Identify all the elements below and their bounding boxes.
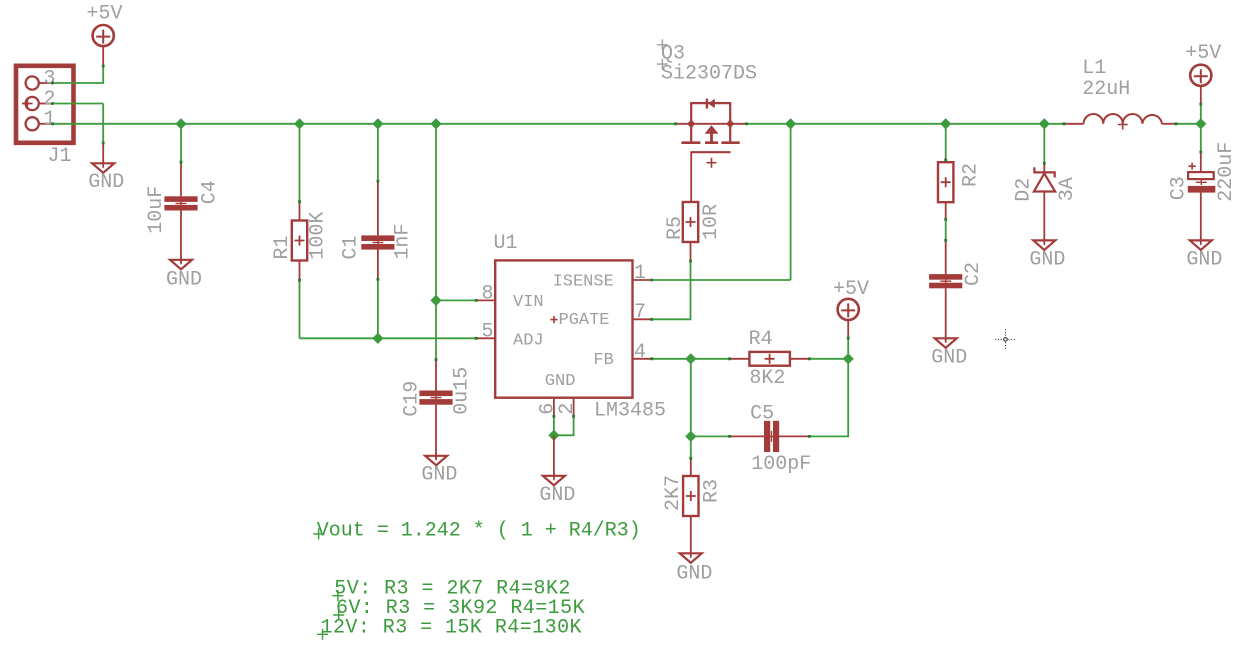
svg-text:D2: D2 bbox=[1012, 178, 1035, 202]
svg-text:8K2: 8K2 bbox=[749, 367, 785, 390]
diode D2 zener bar bbox=[1034, 167, 1054, 177]
ground (C2) bbox=[935, 335, 957, 348]
wire to VIN pin bbox=[436, 299, 476, 301]
GND lead under U1 bbox=[553, 435, 555, 478]
R3 bottom lead bbox=[690, 516, 692, 556]
svg-text:22uH: 22uH bbox=[1082, 78, 1130, 101]
wire C1 to ADJ line bbox=[377, 279, 379, 338]
svg-text:U1: U1 bbox=[494, 232, 518, 255]
U1 ADJ pin stub bbox=[476, 337, 495, 339]
ground (C19) bbox=[425, 453, 447, 466]
Q3 value origin cross bbox=[657, 59, 668, 70]
Q3 contact bars bbox=[681, 141, 739, 144]
svg-text:100K: 100K bbox=[306, 212, 329, 260]
L1 origin cross bbox=[1118, 120, 1128, 130]
wire FB to R4 bbox=[691, 358, 730, 360]
svg-text:0u15: 0u15 bbox=[450, 367, 473, 415]
junction VIN wire bbox=[430, 295, 441, 306]
svg-text:3A: 3A bbox=[1056, 177, 1079, 201]
C5 right lead bbox=[779, 435, 809, 437]
junction rail/VIN bbox=[430, 118, 441, 129]
connector J1 bbox=[16, 66, 74, 143]
junction rail/C4 bbox=[175, 118, 186, 129]
wire pin 6 down bbox=[553, 416, 555, 435]
capacitor C1 bbox=[361, 235, 394, 249]
svg-text:C3: C3 bbox=[1168, 176, 1191, 200]
svg-text:R2: R2 bbox=[959, 163, 982, 187]
wire +5V down to C5 bbox=[809, 338, 848, 436]
transistor Q3 body diode loop bbox=[691, 103, 730, 124]
+5V supply pin bbox=[102, 46, 104, 66]
wire FB node down bbox=[690, 359, 692, 437]
J1 pin 1 stub bbox=[39, 123, 53, 125]
svg-text:+5V: +5V bbox=[1185, 42, 1221, 65]
resistor R4 bbox=[749, 352, 790, 366]
svg-text:LM3485: LM3485 bbox=[594, 399, 666, 422]
svg-text:ADJ: ADJ bbox=[513, 332, 544, 351]
wire +5V to output node bbox=[1200, 104, 1202, 124]
svg-text:5: 5 bbox=[482, 320, 494, 343]
D2 top lead bbox=[1043, 163, 1045, 174]
Q3 drain leg bbox=[729, 124, 731, 142]
U1 origin cross bbox=[550, 316, 557, 323]
Q3 body diode bar bbox=[706, 99, 708, 109]
C3 bottom lead bbox=[1200, 193, 1202, 243]
wire node to C5 bbox=[691, 435, 730, 437]
R1 top lead bbox=[299, 202, 301, 221]
J1 pin 2 circle bbox=[26, 97, 39, 110]
C3 polarity plus bbox=[1189, 163, 1196, 170]
svg-text:R4: R4 bbox=[749, 328, 773, 351]
svg-text:PGATE: PGATE bbox=[559, 311, 610, 330]
inductor L1 bbox=[1064, 123, 1084, 125]
J1 pin 3 stub bbox=[39, 82, 53, 84]
ground (J1) bbox=[92, 160, 114, 173]
wire node down to R3 bbox=[690, 436, 692, 458]
capacitor C3 (polarized) bbox=[1188, 172, 1216, 192]
wire R4 to +5V node bbox=[809, 358, 848, 360]
svg-text:10R: 10R bbox=[700, 204, 723, 240]
svg-text:+5V: +5V bbox=[833, 278, 869, 301]
junction C1/ADJ line bbox=[372, 333, 383, 344]
junction FB/C5/R3 bbox=[685, 431, 696, 442]
wire rail down to C19 (VIN net) bbox=[435, 124, 437, 360]
junction rail/R1 bbox=[294, 118, 305, 129]
+5V supply pin (feedback) bbox=[847, 320, 849, 339]
junction node FB bbox=[685, 353, 696, 364]
wire R2 to C2 bbox=[945, 219, 947, 240]
wire output node to C3 bbox=[1200, 124, 1202, 152]
resistor R5 bbox=[683, 202, 698, 242]
Q3 source leg bbox=[690, 124, 692, 142]
svg-text:C5: C5 bbox=[750, 402, 774, 425]
svg-text:GND: GND bbox=[166, 269, 202, 292]
resistor R3 bbox=[683, 476, 698, 516]
R1 bottom lead bbox=[299, 261, 301, 281]
capacitor C4 bbox=[164, 196, 197, 210]
svg-text:GND: GND bbox=[931, 346, 967, 369]
wire FB to node bbox=[652, 358, 691, 360]
svg-text:1: 1 bbox=[44, 108, 56, 131]
capacitor C5 bbox=[764, 421, 779, 452]
wire Q3 gate to R5 bbox=[690, 152, 692, 202]
junction rail/D2 bbox=[1039, 118, 1050, 129]
svg-text:8: 8 bbox=[482, 282, 494, 305]
U1 GND pin 2 stub bbox=[573, 398, 575, 417]
R5 bottom lead bbox=[690, 242, 692, 261]
wire L1 to output node bbox=[1176, 123, 1201, 125]
Q3 source-drain rail segment bbox=[676, 123, 747, 125]
junction rail/R2 bbox=[940, 118, 951, 129]
J1 origin cross bbox=[22, 98, 33, 109]
svg-text:4: 4 bbox=[634, 341, 646, 364]
wire rail to R1 bbox=[299, 124, 301, 202]
C4 top lead bbox=[180, 162, 182, 196]
svg-text:C19: C19 bbox=[400, 381, 423, 417]
svg-text:C4: C4 bbox=[198, 180, 221, 204]
R2 bottom lead bbox=[945, 202, 947, 219]
svg-text:10uF: 10uF bbox=[145, 186, 168, 234]
svg-text:C1: C1 bbox=[340, 236, 363, 260]
svg-text:220uF: 220uF bbox=[1215, 142, 1238, 202]
C1 top lead bbox=[377, 181, 379, 235]
J1 pin 3 circle bbox=[26, 76, 39, 89]
svg-text:GND: GND bbox=[545, 372, 576, 391]
C1 bottom lead bbox=[377, 250, 379, 280]
wire rail to R2 bbox=[945, 124, 947, 160]
svg-text:Si2307DS: Si2307DS bbox=[661, 62, 757, 85]
pin end markers bbox=[51, 65, 1202, 460]
C3 top lead bbox=[1200, 152, 1202, 172]
Q3 body diode arrow bbox=[708, 99, 715, 108]
5V line origin cross bbox=[332, 590, 343, 601]
Q3 gate bar bbox=[690, 151, 730, 153]
ground (R3) bbox=[680, 550, 702, 563]
C2 top lead bbox=[945, 240, 947, 274]
D2 bottom lead bbox=[1043, 192, 1045, 244]
ground (D2) bbox=[1033, 237, 1055, 250]
svg-text:GND: GND bbox=[1029, 248, 1065, 271]
wire R5 to PGATE bbox=[652, 261, 691, 319]
wire ISENSE vertical bbox=[790, 124, 792, 280]
R4 left lead bbox=[730, 358, 750, 360]
U1 ISENSE pin stub bbox=[633, 279, 652, 281]
resistor R2 bbox=[938, 162, 953, 202]
op-amp U1 body (LM3485) bbox=[495, 260, 632, 397]
Q3 bulk stem bbox=[710, 134, 713, 143]
diode D2 triangle bbox=[1034, 174, 1055, 192]
Q3 source junction bbox=[687, 120, 695, 128]
wire +5V to J1 pin 3 bbox=[53, 66, 104, 83]
ground (U1) bbox=[543, 473, 565, 486]
wire down to GND bbox=[102, 104, 104, 144]
+5V supply (output) bbox=[1190, 65, 1211, 86]
wire main rail left bbox=[53, 123, 676, 125]
svg-text:R1: R1 bbox=[271, 236, 294, 260]
wire rail to C1 bbox=[377, 124, 379, 181]
ground (C3) bbox=[1190, 237, 1212, 250]
wire J1 pin 2 to GND bbox=[53, 103, 104, 105]
svg-text:GND: GND bbox=[421, 464, 457, 487]
wire rail to C4 bbox=[180, 124, 182, 162]
+5V supply (feedback) bbox=[838, 299, 859, 320]
svg-text:2: 2 bbox=[556, 403, 579, 415]
junction output node bbox=[1195, 118, 1206, 129]
junction R4/+5V vertical bbox=[843, 353, 854, 364]
junction rail/ISENSE bbox=[785, 118, 796, 129]
svg-text:2K7: 2K7 bbox=[662, 475, 685, 511]
GND pin lead bbox=[102, 143, 104, 164]
svg-text:GND: GND bbox=[676, 562, 712, 585]
svg-text:7: 7 bbox=[634, 301, 646, 324]
svg-text:+5V: +5V bbox=[87, 3, 123, 26]
wire rail to D2 bbox=[1043, 124, 1045, 164]
C19 top lead bbox=[435, 360, 437, 391]
svg-text:VIN: VIN bbox=[513, 293, 544, 312]
svg-text:R5: R5 bbox=[664, 216, 687, 240]
wire ISENSE horizontal bbox=[652, 279, 791, 281]
svg-text:L1: L1 bbox=[1082, 57, 1106, 80]
R4 right lead bbox=[790, 358, 810, 360]
U1 PGATE pin stub bbox=[633, 318, 652, 320]
ground (C4) bbox=[170, 257, 192, 270]
wire ADJ net bbox=[300, 337, 477, 339]
+5V supply pin (output) bbox=[1200, 86, 1202, 105]
U1 FB pin stub bbox=[633, 358, 652, 360]
wire main rail right of Q3 bbox=[747, 123, 1065, 125]
svg-text:GND: GND bbox=[88, 171, 124, 194]
C2 bottom lead bbox=[945, 288, 947, 341]
svg-text:GND: GND bbox=[1186, 248, 1222, 271]
svg-text:Vout = 1.242 * ( 1 + R4/R3): Vout = 1.242 * ( 1 + R4/R3) bbox=[317, 520, 641, 543]
J1 pin 2 stub bbox=[39, 103, 53, 105]
U1 GND pin 6 stub bbox=[553, 398, 555, 417]
R3 top lead bbox=[690, 458, 692, 476]
svg-text:FB: FB bbox=[593, 351, 613, 370]
svg-text:R3: R3 bbox=[700, 479, 723, 503]
6V line origin cross bbox=[333, 610, 344, 621]
U1 VIN pin stub bbox=[476, 299, 495, 301]
resistor R1 bbox=[292, 221, 307, 261]
svg-text:100pF: 100pF bbox=[751, 453, 811, 476]
cursor crosshair bbox=[995, 329, 1015, 349]
capacitor C2 bbox=[929, 274, 962, 288]
J1 pin 1 circle bbox=[26, 117, 39, 130]
C19 bottom lead bbox=[435, 405, 437, 459]
12V line origin cross bbox=[317, 629, 328, 640]
junction U1 GND pins bbox=[548, 430, 559, 441]
svg-text:J1: J1 bbox=[48, 145, 72, 168]
capacitor C19 bbox=[419, 391, 452, 405]
Q3 name origin cross bbox=[657, 39, 668, 50]
svg-text:1: 1 bbox=[634, 262, 646, 285]
+5V supply (input) bbox=[93, 25, 114, 46]
Q3 bulk arrow bbox=[705, 125, 719, 134]
formula origin cross bbox=[313, 528, 324, 539]
C5 left lead bbox=[730, 435, 764, 437]
svg-text:12V: R3 = 15K R4=130K: 12V: R3 = 15K R4=130K bbox=[321, 616, 583, 639]
C4 bottom lead bbox=[180, 211, 182, 264]
Q3 drain junction bbox=[726, 120, 734, 128]
junction rail/C1 bbox=[372, 118, 383, 129]
wire pin 2 down bbox=[554, 416, 574, 435]
svg-text:1nF: 1nF bbox=[391, 224, 414, 260]
svg-text:ISENSE: ISENSE bbox=[553, 273, 614, 292]
svg-text:C2: C2 bbox=[962, 262, 985, 286]
R2 top lead bbox=[945, 158, 947, 162]
Q3 origin cross bbox=[707, 158, 717, 168]
svg-text:GND: GND bbox=[539, 484, 575, 507]
wire R1 to ADJ line bbox=[299, 280, 301, 338]
